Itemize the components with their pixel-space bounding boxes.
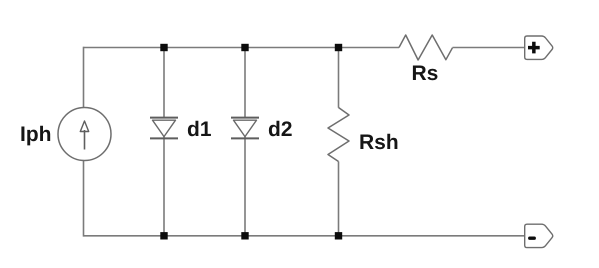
wire top right segment [453, 47, 526, 49]
wire left upper segment [83, 47, 85, 108]
wire d1 upper [163, 48, 165, 119]
wire top left segment [84, 47, 400, 49]
wire d2 upper [244, 48, 246, 119]
diode d2 [231, 118, 259, 139]
junction top d2 [241, 44, 248, 51]
current source Iph [58, 108, 111, 161]
junction bottom d1 [160, 232, 167, 239]
wire Rsh lower [338, 162, 340, 236]
label Iph [21, 126, 50, 146]
junction top Rsh [335, 44, 342, 51]
wire bottom segment [84, 235, 525, 237]
resistor Rs [399, 35, 453, 60]
diode d1 [150, 118, 178, 139]
label d1 [188, 121, 211, 136]
terminal + [525, 36, 553, 59]
wire Rsh upper [338, 48, 340, 108]
resistor Rsh [328, 108, 349, 162]
wire left lower segment [83, 161, 85, 237]
label Rsh [360, 134, 397, 149]
wire d2 lower [244, 137, 246, 236]
junction bottom d2 [241, 232, 248, 239]
label d2 [269, 121, 292, 136]
wire d1 lower [163, 137, 165, 236]
junction bottom Rsh [335, 232, 342, 239]
label Rs [413, 66, 438, 81]
junction top d1 [160, 44, 167, 51]
terminal - [525, 224, 553, 247]
